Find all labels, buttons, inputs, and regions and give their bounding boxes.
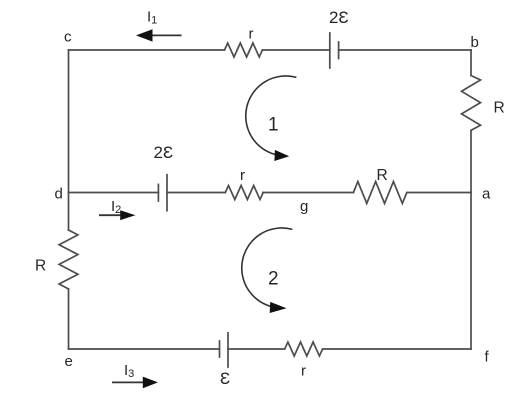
wire c to d (left upper) — [68, 50, 70, 193]
svg-text:R: R — [35, 258, 46, 275]
svg-text:I1: I1 — [147, 9, 157, 27]
svg-text:f: f — [485, 349, 490, 366]
svg-text:R: R — [494, 100, 505, 117]
svg-text:R: R — [377, 167, 388, 184]
wire R to a (middle) — [408, 192, 471, 194]
wire a to f (right bottom) — [470, 193, 472, 350]
battery 2E (middle): long plate — [166, 175, 168, 211]
current arrow I2 (points right) — [99, 210, 136, 220]
wire R to a (right) — [470, 131, 472, 193]
svg-text:r: r — [249, 26, 254, 43]
loop arrow 1 (mesh 1) — [246, 76, 297, 161]
current arrow I1 (points left) — [136, 29, 182, 41]
wire r to battery (top) — [263, 49, 330, 51]
svg-text:r: r — [301, 363, 306, 380]
svg-text:a: a — [482, 186, 491, 203]
svg-text:I3: I3 — [124, 362, 134, 380]
svg-text:e: e — [65, 353, 73, 370]
loop arrow 2 (mesh 2) — [242, 228, 293, 313]
resistor R (right) — [462, 76, 481, 131]
battery E (bottom): short plate — [219, 341, 221, 357]
svg-text:2: 2 — [268, 269, 279, 290]
wire battery to r (middle) — [167, 192, 225, 194]
battery 2E (middle): short plate — [157, 184, 159, 201]
resistor r (middle) — [225, 186, 263, 200]
wire b to R (right top) — [470, 50, 472, 76]
svg-text:Ɛ: Ɛ — [220, 369, 230, 388]
svg-text:I2: I2 — [111, 198, 121, 216]
current arrow I3 (points right) — [112, 377, 158, 389]
wire battery to r (bottom) — [228, 348, 285, 350]
battery E (bottom): long plate — [227, 333, 229, 367]
battery 2E (top): long plate — [329, 33, 331, 68]
svg-text:2Ɛ: 2Ɛ — [329, 8, 349, 27]
wire d to battery (middle) — [69, 192, 159, 194]
wire R to e (left lower) — [68, 289, 70, 349]
svg-text:d: d — [55, 186, 63, 203]
wire e to battery (bottom) — [69, 348, 220, 350]
resistor r (top) — [225, 43, 263, 57]
resistor R (middle) — [353, 182, 406, 204]
svg-text:c: c — [64, 29, 72, 46]
svg-text:1: 1 — [268, 115, 279, 136]
resistor r (bottom) — [285, 342, 323, 356]
svg-text:r: r — [240, 167, 245, 184]
battery 2E (top): short plate — [338, 42, 340, 59]
wire d to R (left) — [68, 193, 70, 231]
svg-text:b: b — [471, 34, 479, 51]
wire battery to b (top right) — [339, 49, 471, 51]
wire c to r (top left) — [69, 49, 225, 51]
wire r to f (bottom) — [323, 348, 471, 350]
wire r to R via node g (middle) — [263, 192, 354, 194]
resistor R (left) — [59, 230, 78, 289]
svg-text:g: g — [300, 198, 308, 215]
svg-text:2Ɛ: 2Ɛ — [154, 143, 174, 162]
